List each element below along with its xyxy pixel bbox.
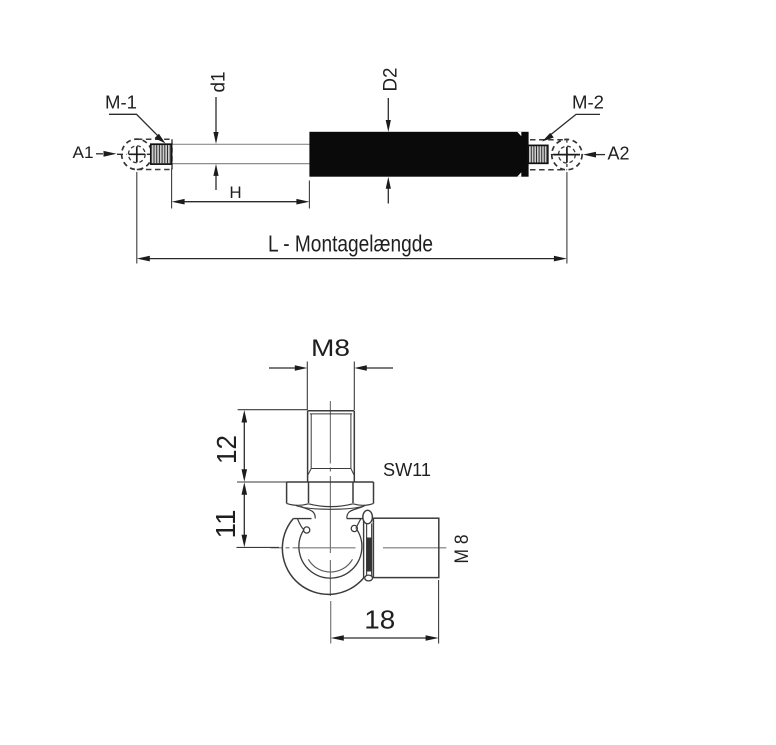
left eyelet (dashed) xyxy=(117,139,172,169)
label M-2 xyxy=(542,92,604,142)
dimension d1 xyxy=(209,72,230,191)
vertical centerline xyxy=(329,401,331,644)
dimension M8 (top of bottom fig) xyxy=(269,335,393,410)
ball socket housing xyxy=(282,519,363,595)
svg-text:A2: A2 xyxy=(608,144,630,164)
right eyelet (dashed) xyxy=(530,139,582,169)
horizontal centerline xyxy=(271,547,447,549)
svg-text:18: 18 xyxy=(364,605,395,635)
svg-text:M-1: M-1 xyxy=(105,91,137,112)
svg-text:M-2: M-2 xyxy=(572,92,604,113)
dimension H xyxy=(172,169,310,209)
rod xyxy=(172,144,311,163)
label A1 xyxy=(73,143,117,162)
svg-text:D2: D2 xyxy=(381,68,402,92)
svg-text:SW11: SW11 xyxy=(383,459,431,480)
left threaded stud M-1 xyxy=(151,144,172,164)
svg-text:A1: A1 xyxy=(73,143,94,162)
svg-text:M8: M8 xyxy=(311,335,350,362)
right threaded stud M-2 xyxy=(528,145,548,163)
svg-text:L - Montagelængde: L - Montagelængde xyxy=(268,231,433,257)
barrel (socket cylinder) xyxy=(373,518,438,577)
threaded stud (bottom fig) xyxy=(308,411,355,482)
spring clip xyxy=(363,510,373,581)
cylinder body xyxy=(309,132,528,177)
svg-text:d1: d1 xyxy=(209,72,230,93)
dimension D2 xyxy=(381,68,402,204)
dimension 12 xyxy=(211,410,308,482)
dimension 18 xyxy=(331,580,439,644)
svg-text:11: 11 xyxy=(210,510,241,539)
dimension L - Montagelaengde xyxy=(137,172,567,264)
label M-1 xyxy=(105,91,166,143)
svg-text:H: H xyxy=(229,183,241,202)
hex nut SW11 xyxy=(287,482,374,519)
svg-text:12: 12 xyxy=(211,435,242,464)
label A2 xyxy=(583,144,630,164)
dimension 11 xyxy=(210,482,279,547)
svg-text:M 8: M 8 xyxy=(452,535,473,564)
